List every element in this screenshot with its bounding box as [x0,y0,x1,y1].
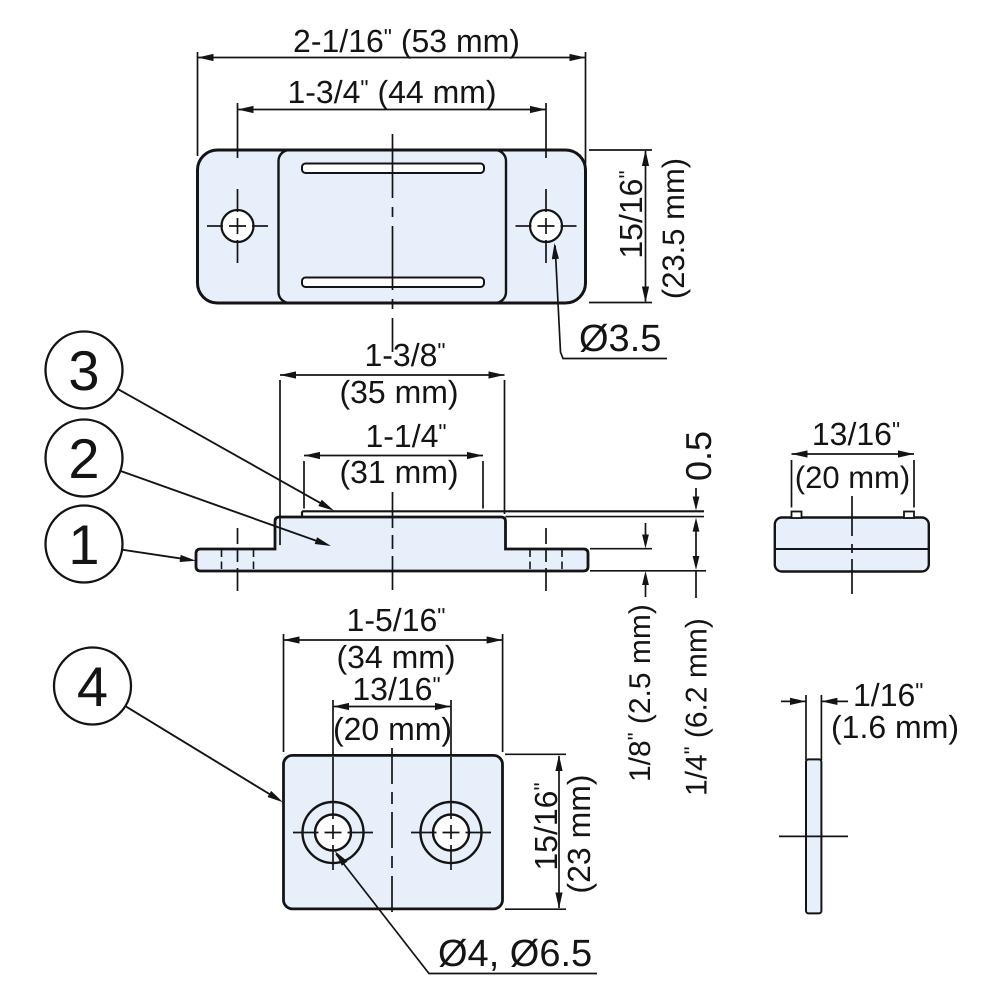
svg-text:Ø3.5: Ø3.5 [579,318,661,360]
svg-text:15/16": 15/16" [528,782,564,870]
svg-text:(20 mm): (20 mm) [795,460,910,495]
svg-text:1-1/4": 1-1/4" [365,418,446,454]
svg-text:3: 3 [68,339,99,402]
svg-text:13/16": 13/16" [812,416,900,452]
svg-text:1/16": 1/16" [853,677,923,713]
svg-text:1: 1 [68,513,99,576]
svg-text:(23.5 mm): (23.5 mm) [656,158,691,299]
svg-text:4: 4 [77,655,108,718]
svg-text:(34 mm): (34 mm) [336,639,455,675]
svg-text:1/8" (2.5 mm): 1/8" (2.5 mm) [623,604,657,782]
svg-text:1-5/16": 1-5/16" [347,602,446,638]
svg-text:1-3/4" (44 mm): 1-3/4" (44 mm) [287,74,496,110]
svg-text:15/16": 15/16" [613,170,649,258]
svg-text:2: 2 [68,427,99,490]
svg-text:0.5: 0.5 [678,431,719,481]
svg-text:(35 mm): (35 mm) [339,374,458,410]
svg-text:(23 mm): (23 mm) [561,774,597,893]
svg-text:(31 mm): (31 mm) [339,454,458,490]
svg-text:Ø4, Ø6.5: Ø4, Ø6.5 [438,933,592,975]
svg-text:(1.6 mm): (1.6 mm) [831,709,959,745]
svg-text:13/16": 13/16" [352,671,440,707]
svg-text:(20 mm): (20 mm) [333,711,452,747]
svg-text:1/4" (6.2 mm): 1/4" (6.2 mm) [680,618,714,796]
svg-text:1-3/8": 1-3/8" [364,337,445,373]
svg-text:2-1/16" (53 mm): 2-1/16" (53 mm) [293,23,520,59]
